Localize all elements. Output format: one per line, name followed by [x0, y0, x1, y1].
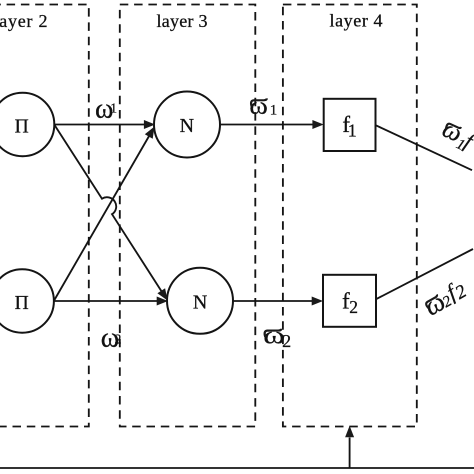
- arrowhead into N2 (horizontal): [157, 297, 168, 306]
- arrowhead into f2: [312, 297, 323, 306]
- layer 3 box: [120, 5, 256, 427]
- label varpi1 on wire N1-f1: [249, 93, 277, 120]
- svg-text:1: 1: [110, 100, 117, 115]
- wire Pi2 to N1: [54, 136, 150, 301]
- wire f1 output: [376, 125, 472, 170]
- label varpi1 f1 on f1 output: [437, 114, 474, 158]
- arrowhead feedback up: [345, 426, 354, 438]
- layer 4 box: [283, 5, 417, 427]
- wire Pi1 to N2 (hop over crossing): [54, 125, 162, 292]
- svg-text:1: 1: [348, 120, 357, 140]
- wire Pi1 to N1: [54, 124, 145, 126]
- node Pi1 circle: [0, 93, 54, 156]
- box f2: [323, 275, 376, 327]
- svg-text:2: 2: [349, 297, 358, 317]
- arrowhead into N2 (diagonal): [157, 288, 167, 300]
- svg-text:layer 4: layer 4: [330, 11, 383, 31]
- svg-text:N: N: [193, 292, 207, 314]
- feedback arrow stem: [349, 438, 351, 469]
- wire N1 to f1: [220, 124, 314, 126]
- node N2 circle: [167, 268, 233, 334]
- svg-text:N: N: [180, 115, 194, 137]
- wire f2 output: [376, 249, 473, 299]
- svg-text:2: 2: [115, 331, 122, 346]
- arrowhead into f1: [312, 120, 323, 129]
- svg-text:1: 1: [270, 102, 278, 118]
- node N1 circle: [154, 92, 220, 158]
- wire Pi2 to N2: [54, 300, 159, 302]
- svg-text:layer 2: layer 2: [0, 11, 48, 31]
- svg-text:layer 3: layer 3: [157, 11, 208, 31]
- svg-text:2: 2: [282, 331, 291, 351]
- svg-text:Π: Π: [15, 293, 29, 314]
- layer 2 box: [0, 5, 89, 427]
- box f1: [324, 99, 376, 151]
- bottom feedback line: [0, 467, 474, 469]
- label varpi2 f2 on f2 output: [419, 274, 472, 321]
- arrowhead into N1 (diagonal): [145, 127, 155, 139]
- svg-text:Π: Π: [15, 117, 29, 138]
- label varpi2 on wire N2-f2: [263, 323, 291, 351]
- wire N2 to f2: [233, 300, 314, 302]
- arrowhead into N1 (horizontal): [144, 120, 155, 129]
- node Pi2 circle: [0, 269, 54, 332]
